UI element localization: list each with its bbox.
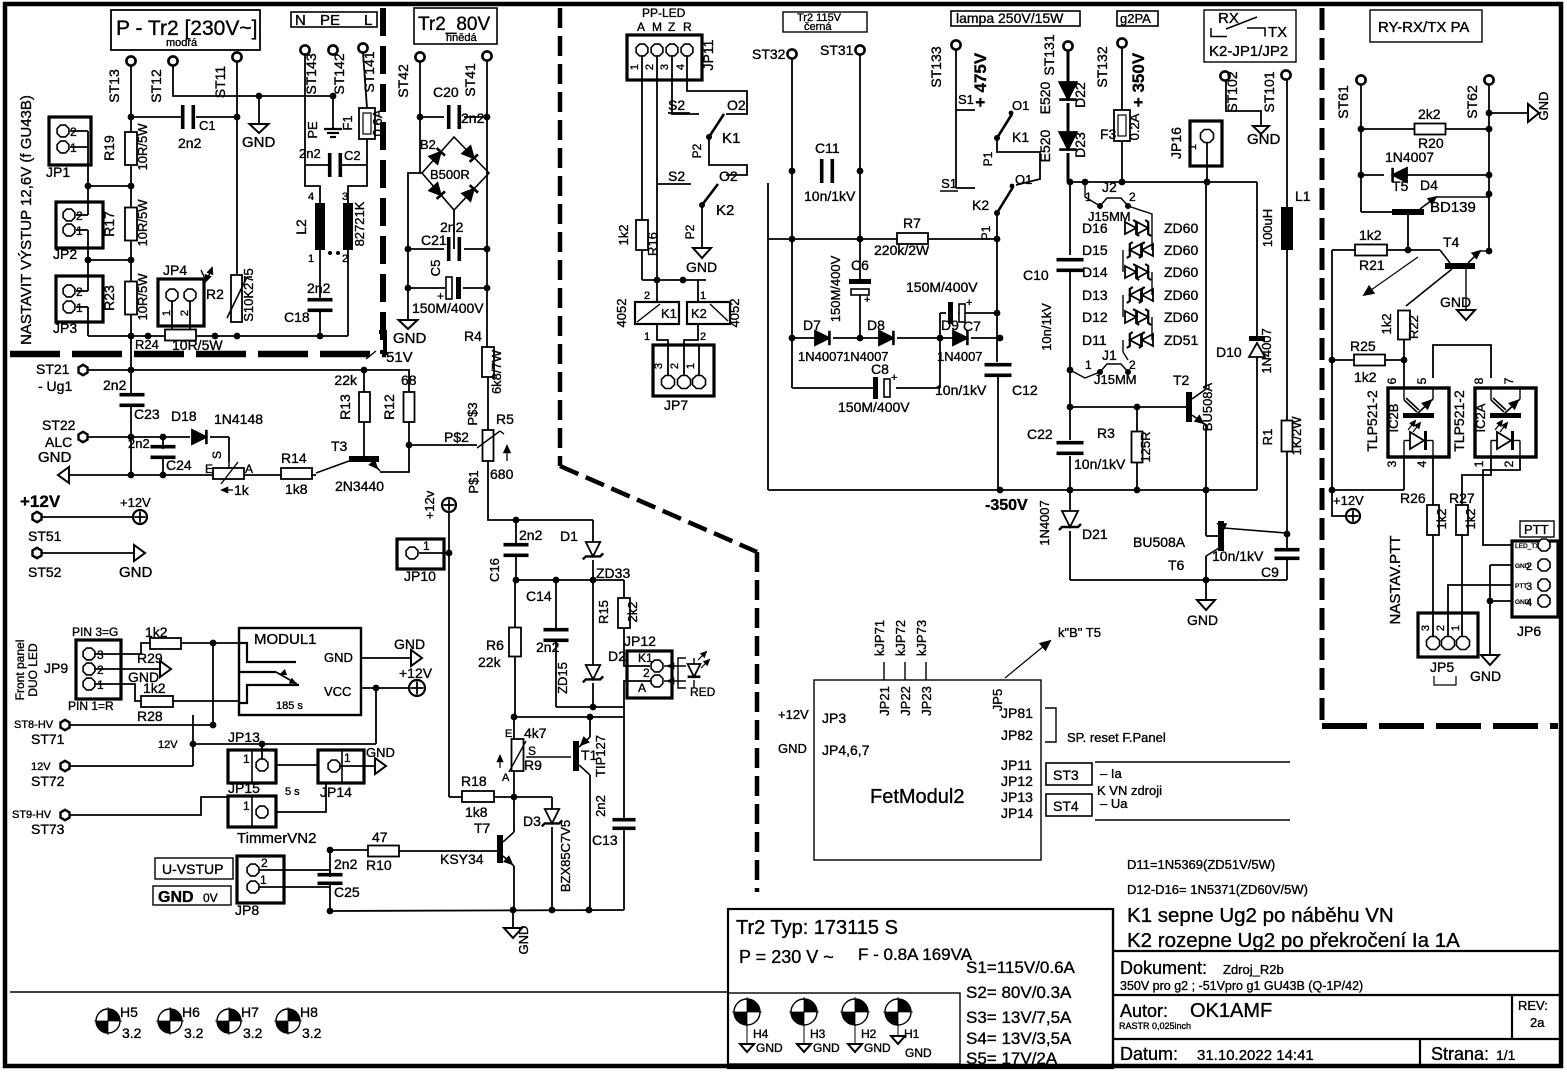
resistor R4 6k8/7W bbox=[482, 347, 494, 377]
wire ST21 row bbox=[88, 369, 410, 371]
svg-text:R22: R22 bbox=[1406, 315, 1421, 339]
svg-text:A: A bbox=[638, 681, 646, 695]
resistor R29 1k2 bbox=[95, 643, 150, 654]
label box g2PA bbox=[1117, 11, 1158, 26]
wire JP11 pin4 to O2 bbox=[687, 56, 747, 114]
svg-text:ST22: ST22 bbox=[42, 417, 76, 433]
resistor R15 2k2 bbox=[623, 580, 625, 598]
gnd arrow JP9 pin2 bbox=[95, 668, 160, 670]
wire ST143 column bbox=[304, 55, 306, 165]
wire column x213 down bbox=[212, 643, 214, 725]
svg-text:2: 2 bbox=[76, 209, 83, 223]
svg-text:JP12: JP12 bbox=[624, 633, 656, 649]
svg-text:RY-RX/TX PA: RY-RX/TX PA bbox=[1378, 19, 1469, 36]
svg-text:ST73: ST73 bbox=[31, 821, 65, 837]
zener diode D14 ZD60 bbox=[1125, 266, 1136, 278]
svg-text:GND: GND bbox=[516, 926, 531, 955]
T4 emitter to R22 bbox=[1406, 269, 1452, 306]
svg-text:ZD60: ZD60 bbox=[1164, 287, 1198, 303]
svg-text:modrá: modrá bbox=[166, 37, 198, 49]
transistor T7 KSY34 bbox=[497, 835, 503, 863]
svg-text:4: 4 bbox=[308, 191, 314, 203]
diode D22 E520 bbox=[1067, 51, 1070, 84]
svg-text:FetModul2: FetModul2 bbox=[870, 786, 965, 808]
svg-text:1k2: 1k2 bbox=[1463, 509, 1478, 530]
svg-text:L1: L1 bbox=[1295, 188, 1311, 204]
svg-text:ST52: ST52 bbox=[28, 564, 62, 580]
terminal ST12 bbox=[168, 56, 177, 65]
svg-text:2N3440: 2N3440 bbox=[335, 478, 384, 494]
adjust arrow bbox=[1364, 257, 1418, 295]
junction dots C1 row bbox=[128, 114, 135, 121]
svg-text:JP9: JP9 bbox=[44, 660, 68, 676]
svg-text:GND: GND bbox=[158, 889, 194, 906]
svg-text:10n/1kV: 10n/1kV bbox=[1074, 456, 1126, 472]
wires coils to JP7 bbox=[657, 324, 668, 375]
svg-text:R18: R18 bbox=[461, 773, 487, 789]
resistor R24 bbox=[165, 330, 196, 341]
svg-text:ST132: ST132 bbox=[1094, 46, 1110, 87]
mounting hole H6 bbox=[158, 1009, 182, 1033]
wire R5 down to C16 row bbox=[488, 461, 593, 520]
svg-text:A: A bbox=[502, 772, 510, 784]
electrolytic C7 bbox=[940, 312, 946, 314]
svg-text:hnědá: hnědá bbox=[446, 32, 477, 44]
pad ST72 12V bbox=[61, 761, 70, 771]
resistor R14 bbox=[244, 474, 281, 476]
terminal ST101 bbox=[1281, 70, 1290, 79]
capacitor C10 bbox=[1057, 258, 1084, 262]
svg-text:1k2: 1k2 bbox=[145, 624, 168, 640]
dashed section border P-Tr2 right bbox=[380, 8, 386, 354]
connector JP11 bbox=[627, 35, 702, 80]
mounting hole H3 bbox=[791, 999, 817, 1025]
mounting hole H8 bbox=[276, 1009, 300, 1033]
svg-text:1: 1 bbox=[1450, 625, 1462, 631]
svg-text:R26: R26 bbox=[1400, 490, 1426, 506]
bracket SP reset bbox=[1045, 708, 1056, 742]
svg-text:TimmerVN2: TimmerVN2 bbox=[237, 830, 316, 847]
wires JP6 gnd rows bbox=[1490, 564, 1512, 566]
svg-text:T2: T2 bbox=[1173, 372, 1190, 388]
title block line 3 bbox=[1113, 1038, 1561, 1040]
wire row under C14/D2 bbox=[556, 706, 624, 708]
resistor R26 1k2 bbox=[1427, 505, 1439, 535]
wire R9 wiper to T1 bbox=[526, 756, 571, 758]
connector JP4 bbox=[158, 279, 204, 326]
svg-text:D15: D15 bbox=[1082, 242, 1108, 258]
box ST3 bbox=[1046, 763, 1092, 785]
svg-text:68: 68 bbox=[401, 372, 417, 388]
svg-text:2: 2 bbox=[76, 285, 83, 299]
svg-text:JP7: JP7 bbox=[664, 397, 688, 413]
svg-text:Front panel: Front panel bbox=[13, 640, 27, 701]
svg-text:JP14: JP14 bbox=[1001, 805, 1033, 821]
wire JP14 to GND bbox=[340, 765, 375, 767]
svg-text:1k2: 1k2 bbox=[1354, 369, 1377, 385]
svg-text:2n2: 2n2 bbox=[299, 146, 321, 161]
mounting hole H5 bbox=[96, 1009, 120, 1033]
svg-text:ST4: ST4 bbox=[1053, 798, 1079, 814]
arrow to T5 base bbox=[1005, 641, 1050, 678]
wire ST41 column bbox=[486, 61, 488, 348]
svg-text:+12V: +12V bbox=[20, 492, 61, 511]
wire gnd row -51V bbox=[69, 474, 213, 476]
REV box bbox=[1511, 995, 1513, 1039]
wire VCC 12V net down bbox=[375, 688, 377, 744]
capacitor C18 bbox=[308, 298, 333, 302]
svg-text:O1: O1 bbox=[1015, 172, 1032, 187]
svg-text:10R/5W: 10R/5W bbox=[135, 123, 150, 171]
svg-text:680: 680 bbox=[490, 466, 514, 482]
svg-text:JP10: JP10 bbox=[404, 568, 436, 584]
zener stack bottom link bbox=[1122, 340, 1124, 352]
svg-text:1N4007: 1N4007 bbox=[1385, 149, 1434, 165]
lines Ia Ua bbox=[1095, 761, 1290, 763]
svg-text:GND: GND bbox=[1187, 612, 1218, 628]
svg-text:C10: C10 bbox=[1023, 267, 1049, 283]
varistor R2 S10K275 bbox=[231, 275, 242, 322]
wire IC2A pin1 to R27 bbox=[1462, 457, 1491, 505]
svg-text:10n/1kV: 10n/1kV bbox=[1039, 303, 1054, 351]
svg-text:T7: T7 bbox=[474, 820, 491, 836]
gnd under K2 P2 bbox=[701, 205, 703, 248]
resistor R21 1k2 bbox=[1332, 249, 1355, 251]
svg-text:O1: O1 bbox=[1012, 98, 1029, 113]
terminal ST42 bbox=[415, 52, 424, 61]
svg-text:185 s: 185 s bbox=[276, 700, 303, 712]
potentiometer R5 680 bbox=[483, 430, 494, 461]
svg-text:K2: K2 bbox=[716, 202, 734, 219]
wire L2 left bottom to C18 bbox=[319, 250, 321, 300]
svg-text:1N4007: 1N4007 bbox=[937, 349, 983, 364]
svg-text:E: E bbox=[205, 462, 213, 476]
svg-text:GND: GND bbox=[324, 650, 353, 665]
zener diode D16 ZD60 bbox=[1125, 222, 1136, 234]
svg-text:GND: GND bbox=[1470, 668, 1501, 684]
capacitor C13 bbox=[623, 717, 625, 818]
label box P - Tr2 [230V~] bbox=[111, 10, 260, 50]
svg-text:JP13: JP13 bbox=[228, 729, 260, 745]
svg-text:3: 3 bbox=[1526, 581, 1532, 593]
svg-text:K2-JP1/JP2: K2-JP1/JP2 bbox=[1209, 43, 1288, 60]
svg-text:GND: GND bbox=[1440, 294, 1471, 310]
svg-text:4: 4 bbox=[1526, 597, 1532, 609]
svg-text:D7: D7 bbox=[803, 317, 821, 333]
svg-text:1k2: 1k2 bbox=[1434, 509, 1449, 530]
svg-text:D12: D12 bbox=[1082, 309, 1108, 325]
svg-text:P = 230 V ~: P = 230 V ~ bbox=[739, 947, 834, 967]
svg-text:TIP127: TIP127 bbox=[593, 735, 608, 777]
resistor R23 bbox=[125, 282, 137, 315]
svg-text:1: 1 bbox=[76, 224, 83, 238]
svg-text:ZD60: ZD60 bbox=[1164, 264, 1198, 280]
svg-text:GND: GND bbox=[394, 636, 425, 652]
svg-text:C22: C22 bbox=[1027, 426, 1053, 442]
svg-text:R4: R4 bbox=[464, 328, 482, 344]
svg-text:1: 1 bbox=[76, 301, 83, 315]
wire ST32 column bbox=[791, 59, 793, 338]
svg-text:L: L bbox=[364, 12, 372, 29]
resistor R17 bbox=[125, 208, 137, 241]
svg-text:1: 1 bbox=[243, 752, 250, 766]
svg-text:2: 2 bbox=[644, 290, 650, 302]
svg-text:ST13: ST13 bbox=[106, 69, 122, 103]
svg-text:31.10.2022 14:41: 31.10.2022 14:41 bbox=[1197, 1047, 1314, 1064]
svg-text:+: + bbox=[864, 294, 870, 306]
svg-text:H2: H2 bbox=[861, 1027, 877, 1041]
svg-text:MODUL1: MODUL1 bbox=[254, 631, 317, 648]
resistor R6 22k bbox=[514, 580, 516, 628]
zener diode D15 ZD60 bbox=[1130, 244, 1141, 256]
svg-text:BU508A: BU508A bbox=[1200, 382, 1215, 431]
svg-text:ST32: ST32 bbox=[752, 46, 786, 62]
svg-text:R10: R10 bbox=[366, 857, 392, 873]
svg-text:M: M bbox=[652, 20, 662, 34]
wire ST42 column bbox=[419, 62, 421, 173]
svg-text:+ 350V: + 350V bbox=[1129, 52, 1148, 107]
svg-text:2n2: 2n2 bbox=[307, 280, 331, 296]
+12V supply MODUL1 bbox=[361, 687, 408, 689]
wire ST51 to +12V bbox=[42, 516, 133, 518]
switch K1 contact S1-O1 bbox=[994, 135, 1000, 141]
diode D21 1N4007 bbox=[1069, 490, 1071, 512]
svg-text:1k2: 1k2 bbox=[1359, 227, 1382, 243]
svg-text:ZD60: ZD60 bbox=[1164, 309, 1198, 325]
transformer L2 windings bbox=[315, 203, 325, 250]
terminal ST132 bbox=[1117, 38, 1126, 47]
svg-text:U-VSTUP: U-VSTUP bbox=[162, 861, 223, 877]
svg-text:2n2: 2n2 bbox=[128, 436, 150, 451]
svg-text:D23: D23 bbox=[1072, 132, 1088, 158]
inductor L1 100uH bbox=[1286, 80, 1288, 207]
ground GND under ST11 row bbox=[250, 124, 269, 133]
svg-text:10R/5W: 10R/5W bbox=[172, 337, 223, 353]
transistor T4 bbox=[1445, 263, 1475, 269]
svg-text:- Ug1: - Ug1 bbox=[38, 378, 72, 394]
svg-text:JP11: JP11 bbox=[1001, 757, 1032, 773]
fuse F3 bbox=[1121, 48, 1123, 110]
svg-text:1: 1 bbox=[344, 751, 351, 765]
svg-text:ST61: ST61 bbox=[1335, 85, 1351, 119]
svg-text:N: N bbox=[295, 12, 306, 29]
diode D7 1N4007 bbox=[815, 331, 829, 345]
svg-text:ST31: ST31 bbox=[820, 42, 854, 58]
svg-text:P1: P1 bbox=[981, 151, 995, 166]
svg-text:A: A bbox=[245, 462, 253, 476]
svg-text:T6: T6 bbox=[1168, 557, 1185, 573]
svg-text:1N4148: 1N4148 bbox=[214, 411, 263, 427]
svg-text:ST51: ST51 bbox=[28, 528, 62, 544]
wire left rail RY bbox=[1331, 250, 1333, 490]
label box lampa 250V/15W bbox=[951, 11, 1080, 26]
svg-text:O2: O2 bbox=[719, 168, 738, 184]
svg-text:82721K: 82721K bbox=[352, 201, 367, 246]
HV rail row bbox=[1068, 181, 1257, 183]
svg-text:150M/400V: 150M/400V bbox=[412, 300, 484, 316]
svg-text:RASTR 0,025inch: RASTR 0,025inch bbox=[1119, 1021, 1191, 1031]
svg-text:R5: R5 bbox=[496, 411, 514, 427]
svg-text:T3: T3 bbox=[331, 438, 348, 454]
svg-text:R14: R14 bbox=[281, 450, 307, 466]
svg-text:1k8: 1k8 bbox=[465, 804, 488, 820]
dashed divider between left and middle sections bbox=[558, 8, 563, 466]
wire bridge bottom bbox=[453, 210, 455, 249]
svg-text:JP16: JP16 bbox=[1168, 127, 1184, 159]
terminal ST61 bbox=[1356, 75, 1365, 84]
potentiometer R11 1k bbox=[213, 468, 244, 479]
svg-text:R6: R6 bbox=[486, 637, 504, 653]
svg-text:D14: D14 bbox=[1082, 264, 1108, 280]
svg-text:PP-LED: PP-LED bbox=[642, 6, 686, 20]
diode D18 1N4148 bbox=[192, 430, 206, 444]
svg-text:0V: 0V bbox=[203, 891, 218, 905]
svg-text:E: E bbox=[505, 728, 512, 740]
svg-text:150M/400V: 150M/400V bbox=[828, 255, 843, 322]
svg-text:+12V: +12V bbox=[1333, 493, 1364, 508]
svg-text:10R/5W: 10R/5W bbox=[135, 273, 150, 321]
svg-text:+: + bbox=[891, 372, 897, 384]
svg-text:K1: K1 bbox=[1012, 129, 1029, 145]
wire K contact rail down bbox=[767, 183, 769, 490]
wire C1 row bbox=[131, 116, 181, 118]
+12V supply circle bbox=[133, 510, 147, 524]
capacitor C2 bbox=[305, 164, 328, 166]
svg-text:S1: S1 bbox=[958, 92, 974, 107]
+12V supply RY bbox=[1332, 490, 1346, 516]
svg-text:P1: P1 bbox=[979, 225, 993, 240]
svg-text:S4= 13V/3,5A: S4= 13V/3,5A bbox=[966, 1029, 1072, 1048]
MODUL1 box bbox=[239, 628, 361, 715]
svg-text:R19: R19 bbox=[101, 135, 117, 161]
capacitor C16 bbox=[515, 520, 517, 544]
wire JP6 LED row bbox=[1483, 457, 1520, 545]
svg-text:ST41: ST41 bbox=[462, 63, 478, 97]
svg-text:3.2: 3.2 bbox=[184, 1025, 204, 1041]
svg-text:3: 3 bbox=[659, 64, 671, 70]
svg-text:4: 4 bbox=[1415, 460, 1429, 467]
svg-text:D12-D16= 1N5371(ZD60V/5W): D12-D16= 1N5371(ZD60V/5W) bbox=[1127, 882, 1308, 897]
svg-text:1: 1 bbox=[700, 290, 706, 302]
svg-text:K1 sepne Ug2 po náběhu VN: K1 sepne Ug2 po náběhu VN bbox=[1127, 904, 1394, 927]
svg-text:GND: GND bbox=[366, 745, 395, 760]
svg-text:J2: J2 bbox=[1102, 179, 1117, 195]
svg-text:0.6A: 0.6A bbox=[370, 109, 385, 136]
wire IC2B pin3 to rail bbox=[1403, 457, 1405, 490]
svg-text:ST133: ST133 bbox=[928, 46, 944, 87]
svg-text:22k: 22k bbox=[478, 654, 502, 670]
gnd under ST102 bbox=[1253, 126, 1269, 134]
svg-text:ST12: ST12 bbox=[148, 69, 164, 103]
svg-text:ST3: ST3 bbox=[1053, 767, 1079, 783]
svg-text:R13: R13 bbox=[337, 394, 353, 420]
dashed border RY section bottom bbox=[1322, 723, 1558, 729]
title block top line bbox=[1113, 950, 1561, 952]
svg-text:J15MM: J15MM bbox=[1094, 372, 1137, 387]
svg-text:JP3: JP3 bbox=[53, 320, 77, 336]
transistor T3 2N3440 bbox=[349, 456, 379, 462]
label box U-VSTUP bbox=[155, 858, 233, 879]
svg-text:LED_TX: LED_TX bbox=[1515, 543, 1540, 550]
svg-text:ST72: ST72 bbox=[31, 773, 65, 789]
svg-text:D21: D21 bbox=[1082, 526, 1108, 542]
svg-text:1k2: 1k2 bbox=[143, 680, 166, 696]
box ST4 bbox=[1046, 794, 1092, 816]
svg-text:K1: K1 bbox=[638, 651, 653, 665]
wire ST133 down bbox=[956, 50, 975, 110]
svg-text:H8: H8 bbox=[300, 1004, 318, 1020]
capacitor C21 bbox=[408, 248, 444, 250]
terminal ST31 bbox=[855, 45, 864, 54]
diode D9 1N4007 bbox=[953, 331, 967, 345]
svg-text:C24: C24 bbox=[166, 457, 192, 473]
svg-text:TLP521-2: TLP521-2 bbox=[1451, 390, 1467, 452]
zener diode D12 ZD60 bbox=[1125, 311, 1136, 323]
svg-text:1: 1 bbox=[423, 539, 430, 553]
pad ST21 bbox=[79, 365, 88, 375]
jumper JP13 bbox=[228, 750, 276, 783]
terminal ST141 bbox=[358, 43, 367, 52]
svg-text:J1: J1 bbox=[1102, 347, 1117, 363]
svg-text:6k8/7W: 6k8/7W bbox=[489, 349, 504, 394]
svg-text:Autor:: Autor: bbox=[1120, 1001, 1168, 1021]
capacitor C23 bbox=[130, 370, 132, 396]
gnd top right bbox=[1489, 112, 1528, 114]
connector JP2 bbox=[56, 202, 103, 248]
zener D1 ZD33 bbox=[592, 520, 594, 544]
diode D8 1N4007 bbox=[879, 331, 893, 345]
table box Tr2 bbox=[728, 909, 1113, 1068]
bottom wire of P-Tr2 section bbox=[88, 335, 348, 337]
svg-text:2: 2 bbox=[1129, 190, 1136, 204]
zener D2 ZD15 bbox=[592, 580, 594, 666]
svg-text:2a: 2a bbox=[1530, 1015, 1545, 1030]
svg-text:R9: R9 bbox=[524, 757, 542, 773]
svg-text:2: 2 bbox=[1435, 625, 1447, 631]
electrolytic C6 bbox=[849, 279, 871, 284]
svg-text:NASTAV.PTT: NASTAV.PTT bbox=[1387, 536, 1404, 625]
zener D3 BZX85C7V5 bbox=[514, 796, 552, 798]
terminal ST142 bbox=[328, 45, 337, 54]
svg-text:k"B" T5: k"B" T5 bbox=[1058, 625, 1101, 640]
svg-text:R28: R28 bbox=[137, 708, 163, 724]
svg-text:D11=1N5369(ZD51V/5W): D11=1N5369(ZD51V/5W) bbox=[1127, 857, 1275, 872]
svg-text:1: 1 bbox=[644, 331, 650, 343]
svg-text:BZX85C7V5: BZX85C7V5 bbox=[558, 820, 573, 892]
wire ST13 column bbox=[130, 66, 132, 370]
svg-text:JP13: JP13 bbox=[1001, 789, 1033, 805]
svg-text:2n2: 2n2 bbox=[461, 110, 485, 126]
svg-text:C13: C13 bbox=[592, 832, 618, 848]
wire ST61 column bbox=[1360, 85, 1362, 212]
svg-text:1N4007: 1N4007 bbox=[1259, 328, 1274, 374]
connector JP16 bbox=[1190, 121, 1222, 166]
label box Tr2_80V bbox=[414, 8, 497, 44]
svg-text:JP82: JP82 bbox=[1001, 727, 1033, 743]
svg-text:D1: D1 bbox=[560, 528, 578, 544]
wires JP2 chain bbox=[76, 214, 88, 216]
terminal ST13 bbox=[126, 56, 135, 65]
svg-text:ST11: ST11 bbox=[212, 66, 228, 99]
svg-text:Zdroj_R2b: Zdroj_R2b bbox=[1223, 962, 1284, 977]
svg-text:GND: GND bbox=[1247, 131, 1281, 148]
svg-text:TLP521-2: TLP521-2 bbox=[1364, 390, 1380, 452]
svg-text:ST42: ST42 bbox=[395, 64, 411, 98]
wire +12v column down bbox=[448, 512, 450, 797]
connector JP3 bbox=[56, 276, 103, 322]
wire ST102 to gnd bbox=[1226, 81, 1261, 126]
relay coil K2 4052 bbox=[687, 302, 730, 324]
